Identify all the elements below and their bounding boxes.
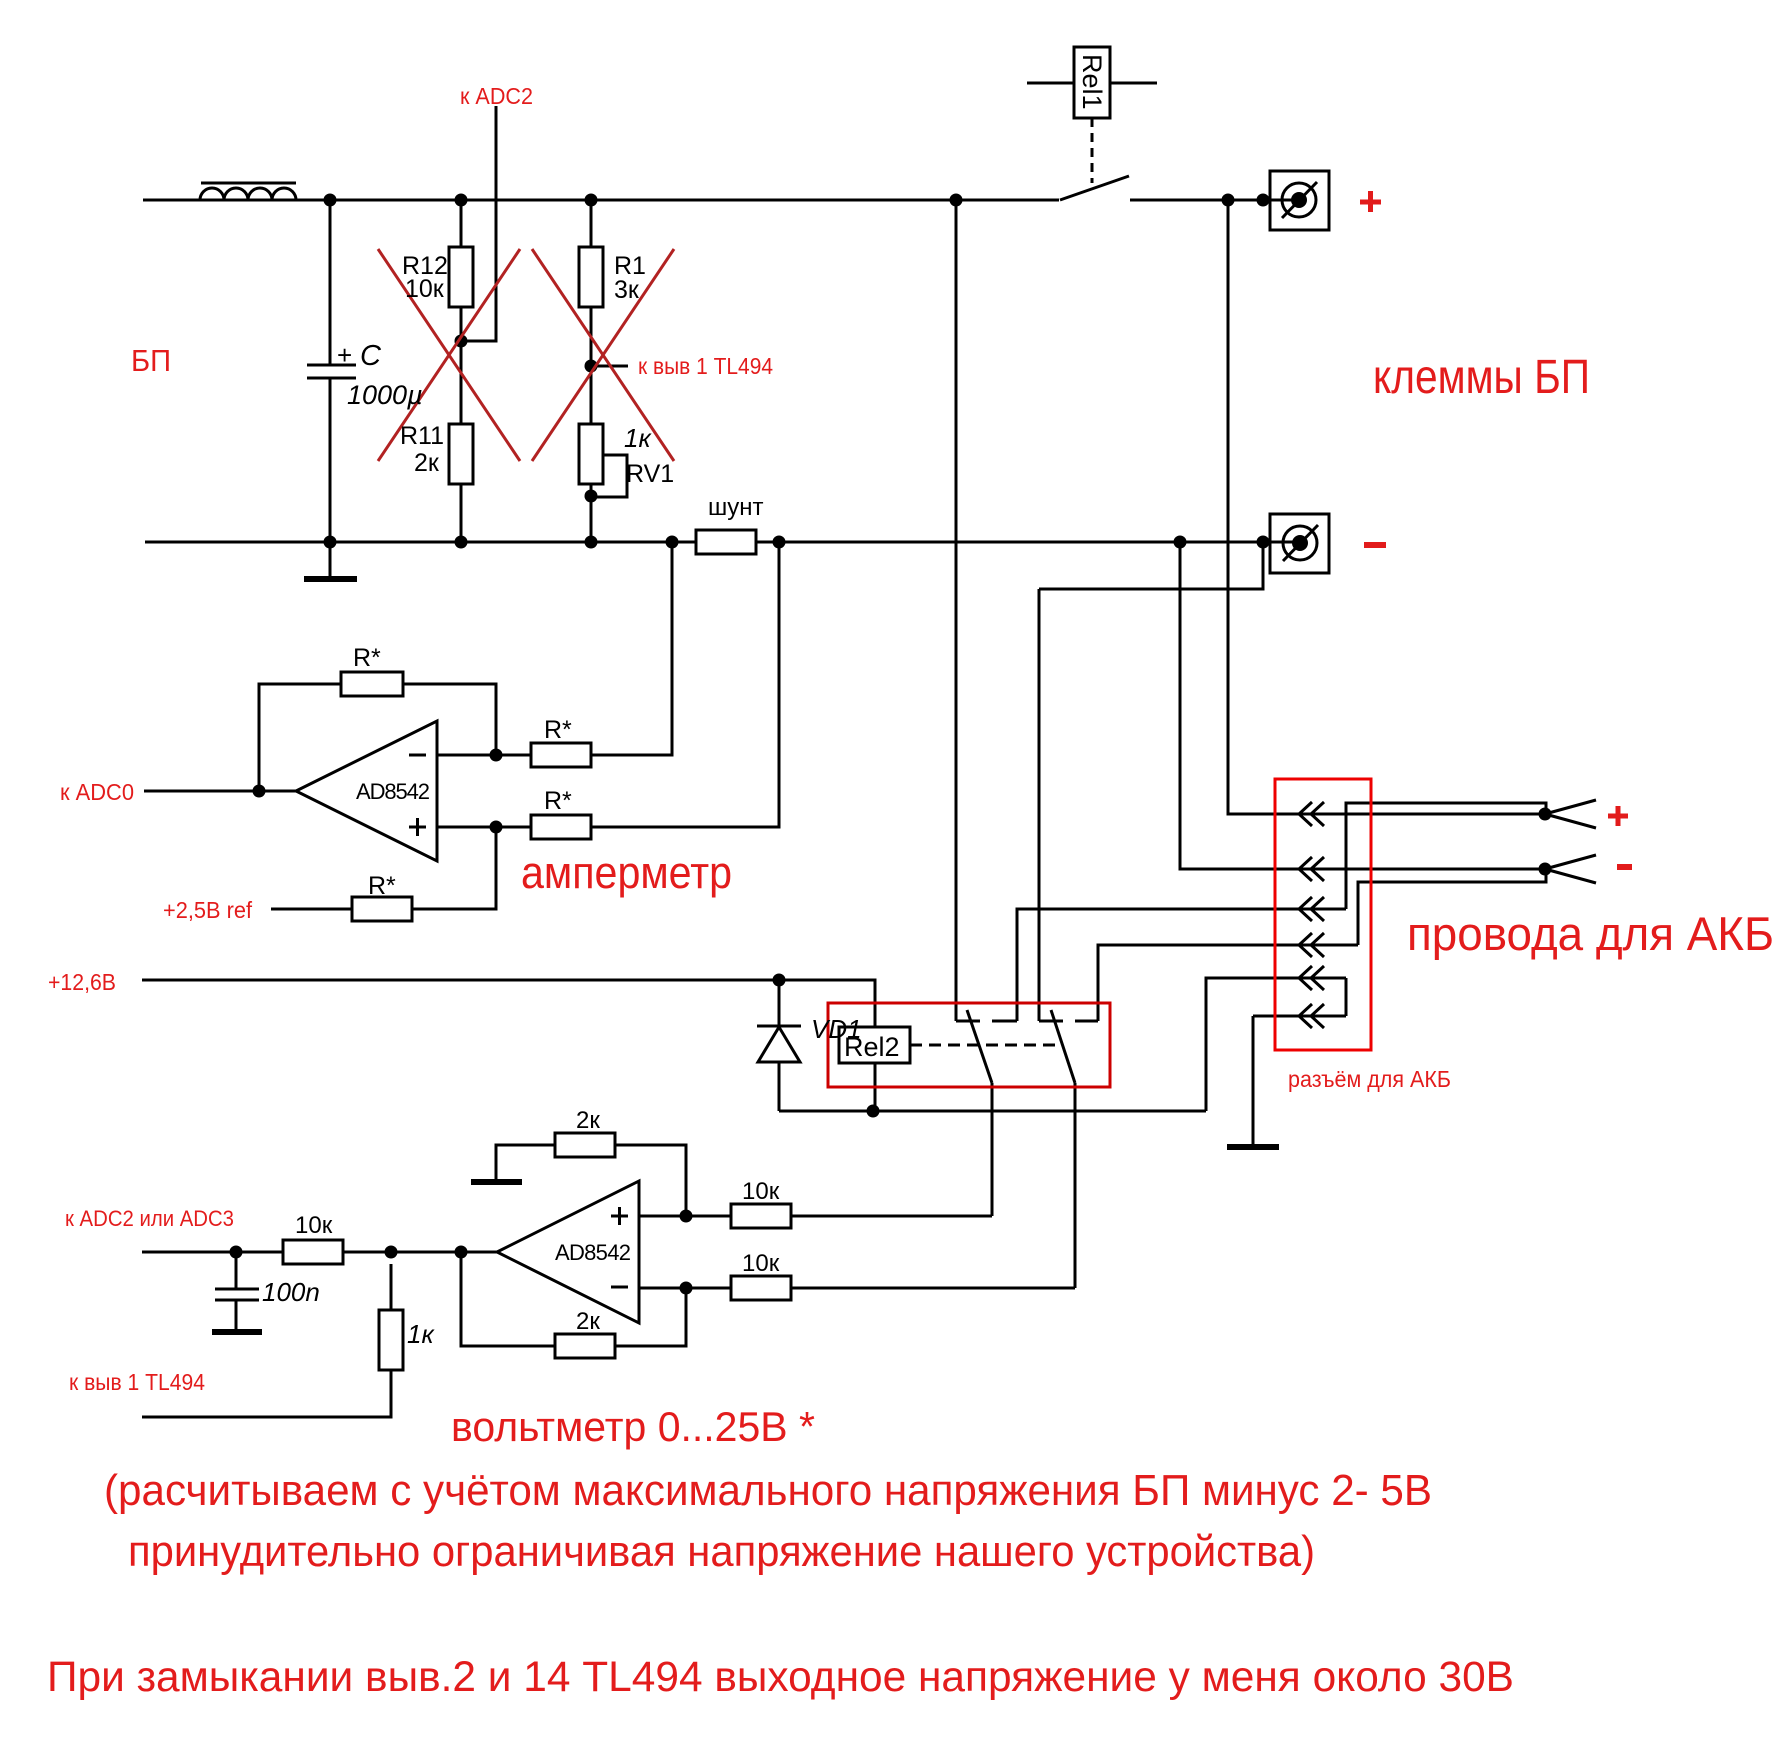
switch B left contact xyxy=(1039,1020,1063,1023)
wire inv input xyxy=(437,754,531,757)
svg-text:БП: БП xyxy=(131,343,171,378)
op-amp U1 plus mark xyxy=(409,818,426,836)
op-amp U2 plus mark xyxy=(611,1207,628,1225)
symbol terminal plus red xyxy=(1360,191,1381,212)
wire capacitor branch lower xyxy=(329,379,332,542)
ground 2k top bar xyxy=(471,1179,522,1185)
wire 2k feedback to inv node xyxy=(615,1288,686,1346)
svg-text:клеммы БП: клеммы БП xyxy=(1373,351,1590,404)
wire conn5-conn6 jumper xyxy=(1345,978,1348,1016)
svg-text:к ADC2: к ADC2 xyxy=(460,83,533,109)
ground PSU bar xyxy=(304,576,357,582)
svg-text:Rel1: Rel1 xyxy=(1077,54,1107,110)
node top rail R1 xyxy=(585,194,598,207)
resistor 2k feedback xyxy=(555,1334,615,1358)
wire ground lead PSU xyxy=(329,542,332,576)
resistor R* reference xyxy=(352,897,412,921)
node bottom rail capacitor xyxy=(324,536,337,549)
wire minus feed to switch B xyxy=(1038,589,1041,1021)
node RV1 wiper junction xyxy=(585,490,598,503)
terminal PSU minus circle xyxy=(1283,526,1317,560)
wire Rel1 right stub xyxy=(1110,82,1157,85)
wire inv R to shunt left xyxy=(591,542,672,755)
svg-text:1к: 1к xyxy=(407,1319,435,1349)
resistor R11 xyxy=(449,424,473,484)
node R1-RV1 junction xyxy=(585,360,598,373)
svg-text:2к: 2к xyxy=(576,1308,600,1335)
resistor R* inverting xyxy=(531,743,591,767)
wire RV1 bottom lead xyxy=(590,484,593,542)
frame Rel2 contact group red box xyxy=(828,1003,1110,1087)
svg-text:к выв 1 TL494: к выв 1 TL494 xyxy=(638,353,773,379)
switch S1 blade xyxy=(1060,176,1129,200)
resistor 2k top xyxy=(555,1133,615,1157)
wire VD1 bottom lead xyxy=(778,1062,781,1111)
resistor shunt xyxy=(696,530,756,554)
node clip minus xyxy=(1539,863,1552,876)
relay Rel2 coil box xyxy=(839,1027,910,1063)
svg-text:C: C xyxy=(360,340,382,372)
wire U2 noninv row xyxy=(639,1215,731,1218)
capacitor C plates xyxy=(307,365,356,378)
wire U1 feedback loop xyxy=(259,684,341,791)
wire 1k to TL494 xyxy=(142,1264,391,1417)
wire R12 top lead xyxy=(460,200,463,247)
svg-text:+12,6В: +12,6В xyxy=(48,969,116,995)
resistor R* feedback xyxy=(341,672,403,696)
svg-text:10к: 10к xyxy=(405,275,445,303)
wire VD1 anode lead xyxy=(778,980,781,1026)
connector pin 4 chevrons xyxy=(1299,933,1324,957)
wire top rail left xyxy=(143,199,1059,202)
svg-text:амперметр: амперметр xyxy=(521,847,732,898)
node top rail plus sense xyxy=(1222,194,1235,207)
resistor 10k inv xyxy=(731,1276,791,1300)
node top rail terminal xyxy=(1257,194,1270,207)
wire minus sense riser xyxy=(1180,542,1545,869)
node U1 inv input xyxy=(490,749,503,762)
wire bottom rail right xyxy=(756,541,1299,544)
diode VD1 cathode bar xyxy=(757,1025,801,1028)
svg-text:10к: 10к xyxy=(742,1250,780,1277)
ground battery connector bar xyxy=(1227,1144,1279,1150)
ground filter cap bar xyxy=(212,1329,262,1335)
wire conn4 to minus clip xyxy=(1358,869,1546,945)
wire plus sense riser xyxy=(1228,200,1545,814)
svg-text:1000µ: 1000µ xyxy=(347,380,423,410)
resistor R* noninverting xyxy=(531,815,591,839)
wire Rel2 coil top xyxy=(779,980,875,1027)
wire R12 to R11 xyxy=(460,307,463,424)
svg-text:к ADC0: к ADC0 xyxy=(60,779,134,805)
wire PSU minus feed xyxy=(1039,542,1263,589)
symbol clip plus red xyxy=(1608,806,1628,826)
resistor R12 xyxy=(449,247,473,307)
svg-text:R*: R* xyxy=(544,787,572,815)
wire 2k top ground leg xyxy=(496,1145,555,1179)
svg-text:R11: R11 xyxy=(400,422,444,450)
svg-text:R*: R* xyxy=(544,716,572,744)
node U1 output xyxy=(253,785,266,798)
wire Rel1 dashed actuator link xyxy=(1091,118,1094,183)
terminal PSU plus box xyxy=(1270,171,1329,230)
svg-text:провода для АКБ: провода для АКБ xyxy=(1407,907,1774,960)
svg-text:разъём для АКБ: разъём для АКБ xyxy=(1288,1066,1451,1092)
capacitor 100n plates xyxy=(215,1289,259,1300)
wire Rel2 dashed actuator xyxy=(910,1044,1058,1047)
node shunt right xyxy=(773,536,786,549)
deleted mark X over R1-RV1 xyxy=(532,249,674,461)
wire 2.5V ref lead xyxy=(271,908,352,911)
svg-text:вольтметр 0...25В *: вольтметр 0...25В * xyxy=(451,1403,815,1450)
node ADC2 filter xyxy=(230,1246,243,1259)
wire 10k noninv to switch A xyxy=(791,1215,992,1218)
node shunt left xyxy=(666,536,679,549)
switch A right contact xyxy=(992,1020,1017,1023)
wire top rail right xyxy=(1130,199,1299,202)
wire ADC2/ADC3 input xyxy=(142,1251,497,1254)
node U2 inv xyxy=(680,1282,693,1295)
diode VD1 triangle xyxy=(758,1027,800,1062)
wire +12.6V rail xyxy=(142,979,779,982)
wire conn6 feed xyxy=(1253,1015,1346,1018)
wire capacitor branch upper xyxy=(329,200,332,364)
wire R11 bottom lead xyxy=(460,484,463,542)
switch B right contact xyxy=(1075,1020,1098,1023)
svg-text:100n: 100n xyxy=(262,1277,320,1307)
symbol terminal minus red xyxy=(1364,542,1386,548)
svg-text:При замыкании выв.2 и 14 TL494: При замыкании выв.2 и 14 TL494 выходное … xyxy=(47,1654,1514,1701)
potentiometer RV1 wiper arm xyxy=(591,455,627,497)
node terminal plus center xyxy=(1291,192,1307,208)
svg-text:3к: 3к xyxy=(614,276,640,304)
svg-text:AD8542: AD8542 xyxy=(356,779,430,804)
node 10k-1k junction xyxy=(385,1246,398,1259)
wire noninv R to shunt right xyxy=(591,542,779,827)
svg-text:RV1: RV1 xyxy=(626,460,674,488)
resistor R1 xyxy=(579,247,603,307)
wire node to TL494 stub xyxy=(591,365,628,368)
node U2 noninv xyxy=(680,1210,693,1223)
svg-text:+: + xyxy=(337,340,352,370)
wire bottom rail left xyxy=(145,541,696,544)
op-amp U1 minus mark xyxy=(409,754,426,757)
connector pin 5 chevrons xyxy=(1299,966,1324,990)
clip minus arms xyxy=(1545,855,1596,883)
svg-text:VD1: VD1 xyxy=(811,1014,862,1044)
wire Rel1 left stub xyxy=(1027,82,1074,85)
node top rail capacitor xyxy=(324,194,337,207)
symbol clip minus red xyxy=(1617,864,1632,870)
wire switch A blade to voltmeter xyxy=(991,1083,994,1216)
op-amp U1 ammeter triangle xyxy=(296,721,437,861)
wire U2 inv row xyxy=(639,1287,731,1290)
node top rail switch A riser xyxy=(950,194,963,207)
wire U2 feedback leg xyxy=(461,1252,555,1346)
wire 10k inv to switch B xyxy=(791,1287,1075,1290)
resistor 10k input xyxy=(283,1240,343,1264)
wire PSU plus to switch A xyxy=(955,200,958,1021)
wire node to ADC2 riser xyxy=(461,106,496,341)
svg-text:к ADC2 или ADC3: к ADC2 или ADC3 xyxy=(65,1206,234,1231)
svg-text:шунт: шунт xyxy=(708,494,764,521)
svg-text:10к: 10к xyxy=(742,1178,780,1205)
node R12-R11 junction xyxy=(455,335,468,348)
wire filter cap bottom lead xyxy=(235,1301,238,1329)
wire switch A to conn3 xyxy=(1017,909,1346,1021)
clip plus arms xyxy=(1545,800,1596,828)
wire feedback to inv node xyxy=(403,684,496,755)
node bottom rail RV1 xyxy=(585,536,598,549)
node bottom rail terminal xyxy=(1257,536,1270,549)
switch A left contact xyxy=(956,1020,980,1023)
node bottom rail R11 xyxy=(455,536,468,549)
terminal PSU minus diagonal xyxy=(1283,525,1318,561)
resistor 1k pulldown xyxy=(379,1310,403,1370)
wire 2k top to noninv node xyxy=(615,1145,686,1216)
svg-text:2к: 2к xyxy=(414,449,440,477)
wire switch B blade to voltmeter xyxy=(1074,1083,1077,1288)
node terminal minus center xyxy=(1292,535,1308,551)
node Rel2 coil bottom xyxy=(867,1105,880,1118)
wire noninv input xyxy=(437,826,531,829)
connector pin 6 chevrons xyxy=(1299,1004,1324,1028)
terminal PSU minus box xyxy=(1270,514,1329,573)
relay Rel1 coil box xyxy=(1074,47,1110,118)
connector pin 3 chevrons xyxy=(1299,897,1324,921)
resistor 10k noninv xyxy=(731,1204,791,1228)
op-amp U2 minus mark xyxy=(611,1286,628,1289)
svg-text:R*: R* xyxy=(353,644,381,672)
wire R1 top lead xyxy=(590,200,593,247)
svg-text:к выв 1 TL494: к выв 1 TL494 xyxy=(69,1369,205,1395)
potentiometer RV1 body xyxy=(579,424,603,484)
svg-text:AD8542: AD8542 xyxy=(555,1240,631,1265)
switch A blade xyxy=(967,1010,992,1083)
wire relay common rail xyxy=(779,1110,1206,1113)
svg-text:(расчитываем с учётом максимал: (расчитываем с учётом максимального напр… xyxy=(104,1466,1432,1515)
svg-text:10к: 10к xyxy=(295,1212,333,1239)
wire conn5 feed xyxy=(1206,978,1346,1111)
node +12.6V diode xyxy=(773,974,786,987)
terminal PSU plus diagonal xyxy=(1282,182,1317,218)
node U1 noninv input xyxy=(490,821,503,834)
svg-text:1к: 1к xyxy=(624,423,652,453)
deleted mark X over R12-R11 xyxy=(378,249,520,461)
wire Rel2 coil bottom xyxy=(874,1063,877,1111)
wire R1 to RV1 xyxy=(590,307,593,424)
node top rail R12 xyxy=(455,194,468,207)
node clip plus xyxy=(1539,808,1552,821)
svg-text:R*: R* xyxy=(368,872,396,900)
terminal PSU plus circle xyxy=(1282,183,1316,217)
svg-text:принудительно ограничивая напр: принудительно ограничивая напряжение наш… xyxy=(128,1528,1315,1576)
svg-text:2к: 2к xyxy=(576,1107,600,1134)
wire filter cap top lead xyxy=(235,1252,238,1288)
connector pin 2 chevrons xyxy=(1299,857,1324,881)
wire conn3 to plus clip xyxy=(1346,803,1546,909)
wire conn6 ground lead xyxy=(1252,1016,1255,1144)
wire switch B to conn4 xyxy=(1098,945,1358,1021)
wire ADC0 input xyxy=(144,790,296,793)
frame battery connector red box xyxy=(1275,779,1371,1050)
inductor L1 xyxy=(200,188,296,200)
node U2 feedback tap xyxy=(455,1246,468,1259)
switch B blade xyxy=(1051,1010,1075,1083)
wire ref R to noninv node xyxy=(412,827,496,909)
svg-text:+2,5В ref: +2,5В ref xyxy=(163,897,253,923)
node bottom rail minus sense xyxy=(1174,536,1187,549)
op-amp U2 voltmeter triangle xyxy=(497,1181,639,1323)
connector pin 1 chevrons xyxy=(1299,802,1324,826)
